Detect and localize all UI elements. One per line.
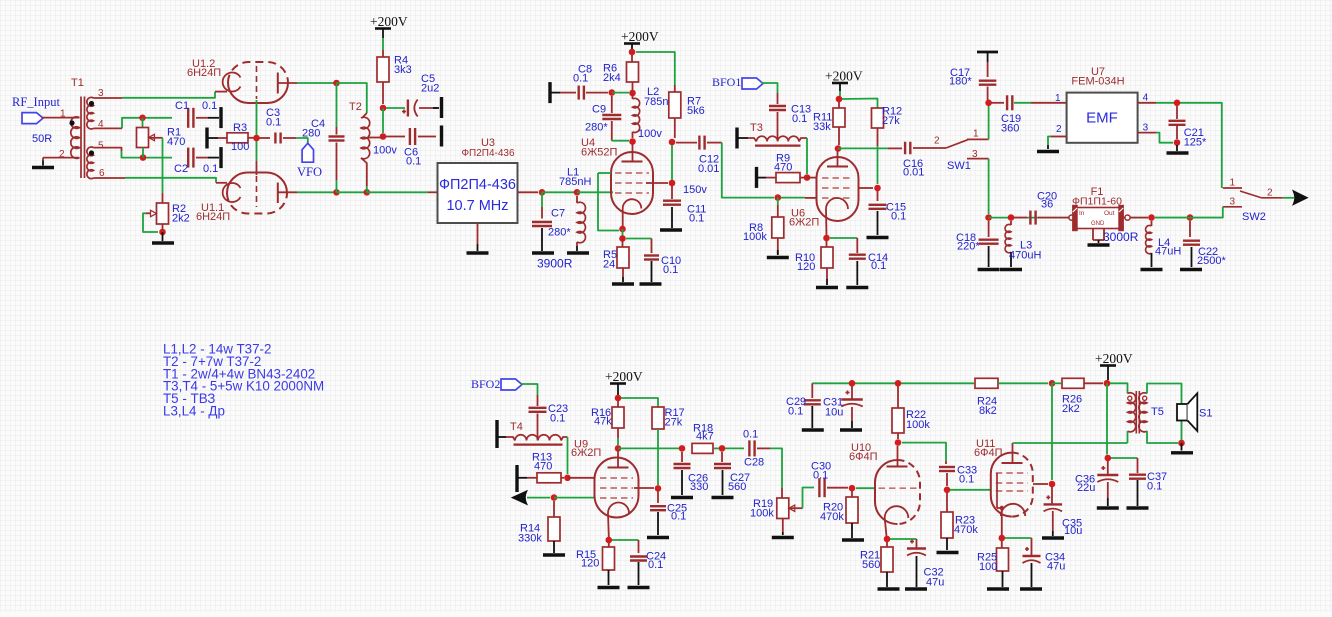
svg-text:1: 1 [1230, 178, 1236, 189]
svg-text:+200V: +200V [621, 29, 659, 44]
svg-text:2: 2 [934, 136, 940, 147]
svg-text:ФП2П4-436: ФП2П4-436 [461, 148, 515, 159]
svg-text:1: 1 [973, 128, 979, 139]
svg-text:8k2: 8k2 [979, 405, 997, 417]
svg-text:24: 24 [603, 258, 615, 270]
svg-text:GND: GND [1091, 221, 1105, 227]
svg-text:180*: 180* [949, 76, 972, 88]
svg-text:0.1: 0.1 [891, 211, 906, 223]
svg-text:VFO: VFO [297, 165, 322, 179]
svg-text:100v: 100v [638, 128, 662, 140]
svg-text:3000R: 3000R [1103, 230, 1139, 244]
svg-text:100: 100 [231, 141, 249, 153]
svg-text:S1: S1 [1199, 408, 1212, 420]
svg-text:T1: T1 [71, 77, 84, 89]
svg-text:0.1: 0.1 [1147, 481, 1162, 493]
svg-text:47u: 47u [926, 577, 944, 589]
svg-text:3: 3 [972, 149, 978, 160]
svg-text:280*: 280* [548, 227, 571, 239]
svg-text:T3: T3 [750, 122, 763, 134]
svg-text:+200V: +200V [825, 69, 863, 84]
svg-text:2k4: 2k4 [603, 72, 621, 84]
svg-text:2: 2 [1056, 124, 1062, 135]
svg-text:6Ж2П: 6Ж2П [789, 217, 819, 229]
svg-text:2u2: 2u2 [421, 82, 439, 94]
svg-text:125*: 125* [1184, 137, 1207, 149]
svg-text:6Ф4П: 6Ф4П [849, 451, 878, 463]
svg-text:785nH: 785nH [559, 176, 591, 188]
svg-text:0.1: 0.1 [203, 163, 218, 175]
svg-text:5k6: 5k6 [687, 105, 705, 117]
svg-text:0.1: 0.1 [959, 474, 974, 486]
svg-text:10.7 MHz: 10.7 MHz [446, 198, 508, 214]
svg-text:47k: 47k [594, 416, 612, 428]
svg-text:SW1: SW1 [947, 160, 971, 172]
svg-text:10u: 10u [825, 407, 843, 419]
svg-text:2: 2 [59, 149, 65, 160]
svg-text:27k: 27k [882, 115, 900, 127]
svg-text:360: 360 [1001, 122, 1019, 134]
svg-text:Out: Out [1104, 210, 1115, 217]
svg-text:0.1: 0.1 [813, 470, 828, 482]
svg-text:ФП1П1-60: ФП1П1-60 [1072, 196, 1122, 208]
svg-text:L3,L4 - Др: L3,L4 - Др [163, 404, 225, 419]
svg-text:C7: C7 [551, 208, 565, 220]
svg-text:3900R: 3900R [537, 257, 573, 271]
svg-text:100v: 100v [373, 145, 397, 157]
svg-text:RF_Input: RF_Input [12, 95, 60, 109]
svg-text:T2: T2 [349, 101, 362, 113]
svg-text:100k: 100k [750, 507, 774, 519]
svg-text:100k: 100k [743, 231, 767, 243]
svg-text:6Ф4П: 6Ф4П [974, 447, 1003, 459]
svg-text:1: 1 [60, 109, 66, 120]
svg-text:6Н24П: 6Н24П [196, 211, 230, 223]
svg-text:0.1: 0.1 [550, 413, 565, 425]
svg-text:470k: 470k [954, 524, 978, 536]
svg-text:0.1: 0.1 [266, 116, 281, 128]
svg-text:T5: T5 [1151, 406, 1164, 418]
svg-text:0.1: 0.1 [792, 113, 807, 125]
svg-text:470k: 470k [820, 511, 844, 523]
svg-text:6Ж2П: 6Ж2П [571, 447, 601, 459]
svg-text:2k2: 2k2 [1062, 403, 1080, 415]
svg-text:0.1: 0.1 [573, 73, 588, 85]
svg-text:EMF: EMF [1086, 110, 1118, 127]
svg-text:0.1: 0.1 [743, 429, 758, 441]
svg-text:120: 120 [581, 558, 599, 570]
svg-text:5: 5 [98, 141, 104, 152]
svg-text:560: 560 [862, 559, 880, 571]
svg-text:330: 330 [690, 481, 708, 493]
svg-text:470: 470 [774, 162, 792, 174]
svg-text:2: 2 [1267, 188, 1273, 199]
svg-text:220*: 220* [957, 241, 980, 253]
svg-text:47uH: 47uH [1155, 246, 1181, 258]
svg-text:0.1: 0.1 [871, 260, 886, 272]
svg-text:150v: 150v [683, 184, 707, 196]
svg-text:50R: 50R [32, 133, 52, 145]
svg-text:BFO1: BFO1 [712, 75, 741, 89]
svg-text:6Ж52П: 6Ж52П [581, 147, 618, 159]
svg-text:6Н24П: 6Н24П [187, 67, 221, 79]
svg-text:2k2: 2k2 [172, 212, 190, 224]
svg-text:3: 3 [1230, 197, 1236, 208]
svg-text:C1: C1 [175, 100, 189, 112]
svg-text:47u: 47u [1047, 561, 1065, 573]
svg-text:+200V: +200V [370, 14, 408, 29]
svg-text:BFO2: BFO2 [471, 377, 500, 391]
svg-text:0.01: 0.01 [698, 163, 719, 175]
svg-text:0.1: 0.1 [406, 156, 421, 168]
svg-text:T4: T4 [510, 421, 523, 433]
svg-text:0.1: 0.1 [663, 264, 678, 276]
svg-text:0.1: 0.1 [648, 559, 663, 571]
svg-text:0.1: 0.1 [689, 213, 704, 225]
svg-text:2500*: 2500* [1197, 255, 1226, 267]
svg-text:280: 280 [302, 127, 320, 139]
svg-text:+200V: +200V [1095, 351, 1133, 366]
svg-text:+200V: +200V [605, 369, 643, 384]
svg-text:120: 120 [797, 261, 815, 273]
svg-text:100: 100 [979, 561, 997, 573]
svg-text:280*: 280* [585, 122, 608, 134]
svg-text:27k: 27k [665, 416, 683, 428]
svg-text:10u: 10u [1064, 525, 1082, 537]
svg-text:3k3: 3k3 [394, 64, 412, 76]
svg-text:0.01: 0.01 [903, 167, 924, 179]
svg-text:22u: 22u [1077, 482, 1095, 494]
svg-text:C28: C28 [744, 457, 764, 469]
svg-text:470uH: 470uH [1009, 250, 1041, 262]
svg-text:FEM-034H: FEM-034H [1071, 76, 1124, 88]
svg-text:470: 470 [534, 461, 552, 473]
svg-text:C2: C2 [174, 163, 188, 175]
svg-text:470: 470 [167, 136, 185, 148]
svg-text:C9: C9 [592, 104, 606, 116]
svg-text:In: In [1079, 210, 1085, 217]
svg-text:0.1: 0.1 [202, 100, 217, 112]
svg-text:0.1: 0.1 [788, 406, 803, 418]
svg-text:330k: 330k [518, 533, 542, 545]
svg-text:ФП2П4-436: ФП2П4-436 [439, 177, 516, 193]
svg-text:4k7: 4k7 [696, 431, 714, 443]
svg-text:33k: 33k [813, 121, 831, 133]
svg-text:100k: 100k [906, 419, 930, 431]
svg-text:0.1: 0.1 [671, 511, 686, 523]
svg-text:1: 1 [1055, 93, 1061, 104]
svg-text:R3: R3 [233, 122, 247, 134]
svg-text:SW2: SW2 [1242, 211, 1266, 223]
svg-text:560: 560 [728, 481, 746, 493]
svg-text:36: 36 [1041, 199, 1053, 211]
